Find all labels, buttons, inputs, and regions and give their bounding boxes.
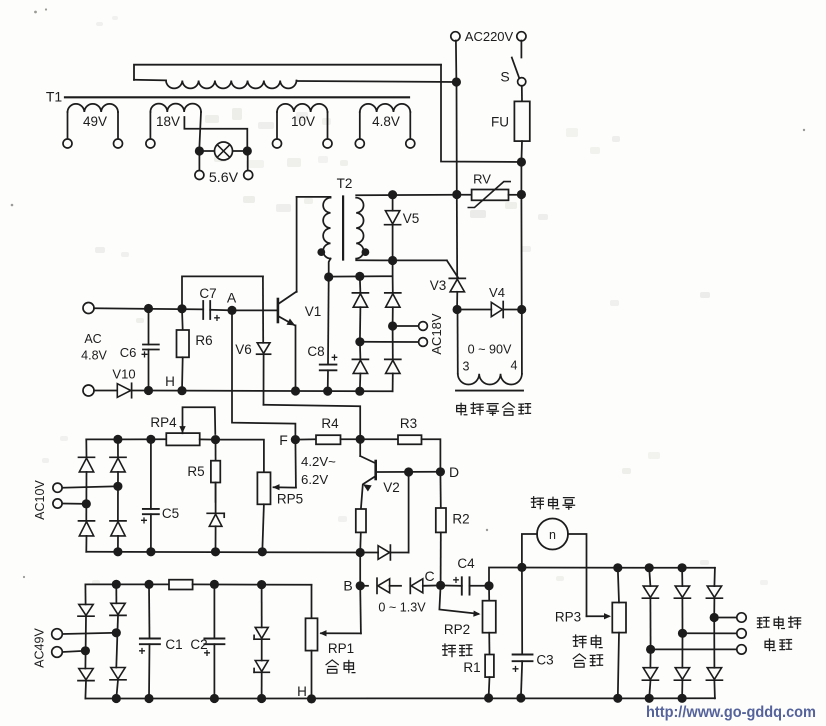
wire RP5 wiper to F bbox=[294, 440, 297, 488]
node bot C3 bbox=[516, 693, 525, 702]
label 6.2V bbox=[301, 472, 328, 487]
label R5 bbox=[187, 464, 204, 479]
label C6 bbox=[120, 345, 137, 360]
svg-text:T2: T2 bbox=[337, 176, 353, 191]
label R3 bbox=[400, 416, 417, 431]
wire V4 right bbox=[503, 309, 522, 311]
label F bbox=[279, 432, 288, 448]
svg-text:C: C bbox=[424, 568, 434, 584]
wire between VB1 VB2 bbox=[390, 585, 401, 587]
svg-text:T1: T1 bbox=[46, 89, 63, 105]
node 3ph top col2 bbox=[678, 563, 687, 572]
wire AC10V top rail bbox=[86, 438, 166, 440]
resistor RF (filter) bbox=[169, 580, 193, 590]
resistor RE (V2 emitter) bbox=[356, 509, 366, 532]
transformer T1 primary winding bbox=[134, 80, 296, 89]
fuse FU bbox=[514, 101, 529, 141]
terminal 5.6V left bbox=[195, 171, 204, 180]
resistor R4 bbox=[316, 435, 341, 444]
node H C6 bbox=[144, 386, 153, 395]
wire H rail upper bbox=[149, 390, 393, 393]
label C5 bbox=[162, 506, 179, 521]
svg-text:V5: V5 bbox=[403, 211, 420, 226]
wire RP2 to R1 bbox=[488, 633, 490, 655]
wire F to R4 bbox=[295, 438, 316, 440]
RP4 wiper bbox=[179, 407, 215, 434]
node RV right bbox=[517, 190, 526, 199]
diode V5 bbox=[385, 199, 401, 257]
terminal 10V left bbox=[273, 139, 282, 148]
label dianya bbox=[765, 639, 791, 651]
wire T2 primary bottom bbox=[329, 259, 331, 277]
node bridge1 top bbox=[355, 272, 364, 281]
diode VD (mid rail) bbox=[378, 545, 390, 560]
node mid RP5 bbox=[258, 547, 267, 556]
label fankui bbox=[443, 644, 472, 657]
RP1 wiper bbox=[320, 630, 361, 636]
wire lamp left terminal bbox=[198, 151, 200, 171]
node C5 top bbox=[146, 435, 155, 444]
wire primary-bar right end down bbox=[441, 65, 521, 162]
3ph diode bot2 bbox=[674, 633, 690, 698]
switch S arm bbox=[512, 58, 519, 79]
svg-text:AC220V: AC220V bbox=[465, 29, 514, 44]
wire to RP3 wiper bbox=[587, 613, 612, 619]
label pin 3 bbox=[463, 360, 470, 374]
bridge diode D1 (AC18V top-left) bbox=[352, 276, 368, 341]
node FU junction bbox=[517, 157, 526, 166]
svg-text:D: D bbox=[449, 464, 459, 480]
label RV bbox=[473, 172, 491, 187]
wire R1 bottom bbox=[488, 677, 491, 698]
svg-text:C8: C8 bbox=[307, 344, 324, 359]
node bot 3ph2 bbox=[678, 694, 687, 703]
polarity dot T2 secondary bbox=[362, 248, 370, 256]
label zhuansu bbox=[573, 635, 602, 648]
label dianci-liheqi bbox=[457, 403, 531, 415]
wire A down to F bbox=[232, 310, 295, 439]
node D bbox=[436, 467, 445, 476]
label 0~1.3V bbox=[378, 601, 426, 615]
label C8 plus bbox=[331, 353, 338, 365]
svg-text:0 ~ 90V: 0 ~ 90V bbox=[468, 343, 512, 357]
svg-text:R6: R6 bbox=[195, 333, 212, 348]
node AC49V t1 bbox=[112, 628, 121, 637]
svg-text:FU: FU bbox=[491, 115, 509, 130]
capacitor C7 bbox=[203, 301, 232, 319]
svg-text:C6: C6 bbox=[120, 345, 137, 360]
label RP1 bbox=[328, 641, 354, 656]
label cesuji bbox=[757, 616, 800, 628]
winding T1 4.8V bbox=[360, 104, 411, 139]
svg-text:C3: C3 bbox=[536, 653, 553, 668]
node C8 top bbox=[324, 272, 333, 281]
capacitor C1 bbox=[140, 584, 160, 698]
tachometer meter n bbox=[537, 519, 568, 550]
wire B up bbox=[359, 553, 361, 586]
label T2 bbox=[337, 176, 353, 191]
node bot 3ph1 bbox=[645, 694, 654, 703]
electromagnetic clutch coil bbox=[458, 374, 522, 385]
svg-text:4.8V: 4.8V bbox=[372, 114, 400, 129]
wire RF right bbox=[193, 583, 312, 585]
svg-text:4.2V~: 4.2V~ bbox=[301, 454, 336, 469]
wire R4 to node bbox=[341, 438, 361, 440]
terminal AC220V right bbox=[517, 32, 526, 41]
label S bbox=[500, 69, 509, 85]
terminal AC10V top bbox=[53, 483, 62, 492]
terminal 5.6V right bbox=[244, 171, 253, 180]
node F bbox=[291, 435, 300, 444]
label C5 plus bbox=[140, 514, 147, 528]
node AC10V t2 bbox=[82, 499, 91, 508]
label V3 bbox=[430, 278, 447, 293]
svg-text:0 ~ 1.3V: 0 ~ 1.3V bbox=[378, 601, 426, 615]
wire VB2 to C bbox=[423, 584, 441, 586]
terminal 10V right bbox=[323, 139, 332, 148]
node lamp right bbox=[243, 146, 252, 155]
polarity dot T2 primary bbox=[317, 248, 325, 256]
node H bridge1 bbox=[355, 387, 364, 396]
winding T1 10V bbox=[277, 104, 328, 139]
svg-text:10V: 10V bbox=[291, 114, 315, 129]
wire A to V1 base bbox=[232, 309, 278, 311]
label C2 bbox=[190, 637, 207, 652]
node V5 top bbox=[388, 190, 397, 199]
transistor V2 bbox=[360, 439, 376, 491]
label RP3 bbox=[555, 610, 581, 625]
wire base-junction down bbox=[408, 472, 410, 553]
wire bridge top rail bbox=[329, 275, 393, 277]
bridge diode D4 (AC18V bottom-right) bbox=[385, 326, 401, 391]
RP5 wiper bbox=[273, 484, 296, 490]
terminal AC4.8V top bbox=[83, 303, 94, 314]
svg-text:R2: R2 bbox=[452, 512, 469, 527]
wire FU to RV bbox=[520, 162, 522, 195]
resistor R5 bbox=[211, 440, 220, 502]
wire rail to RP1 bbox=[311, 585, 313, 619]
label C3 plus bbox=[512, 662, 519, 676]
label 0~90V bbox=[468, 343, 512, 357]
label RP2 bbox=[444, 622, 470, 637]
node C1 top bbox=[144, 580, 153, 589]
switch S contact bbox=[518, 78, 526, 86]
node mid C5 bbox=[146, 547, 155, 556]
node RV left bbox=[452, 190, 461, 199]
wire AC10V t2 bbox=[62, 503, 86, 505]
transformer T1 core bbox=[65, 96, 409, 98]
3ph diode top1 bbox=[642, 568, 658, 650]
terminal tacho 1 bbox=[737, 613, 746, 622]
svg-text:+: + bbox=[453, 575, 460, 587]
label C7 plus bbox=[214, 313, 221, 325]
node AC10V top bbox=[113, 435, 122, 444]
label C7 bbox=[199, 286, 216, 301]
node R5 top bbox=[211, 435, 220, 444]
label C1 bbox=[165, 637, 182, 652]
winding T1 49V bbox=[68, 104, 119, 139]
label RP4 bbox=[150, 415, 177, 430]
zener VZ2 (pair lower) bbox=[254, 639, 269, 698]
label R4 bbox=[321, 416, 339, 431]
potentiometer RP5 bbox=[257, 472, 270, 504]
label C1 plus bbox=[138, 644, 145, 658]
svg-text:4.8V: 4.8V bbox=[81, 349, 107, 363]
node mid B-branch bbox=[356, 548, 365, 557]
label H(bottom) bbox=[297, 684, 307, 699]
label V4 bbox=[489, 285, 505, 300]
label 4.8V(input) bbox=[81, 349, 107, 363]
terminal 49V right bbox=[114, 139, 123, 148]
wire V1 collector bbox=[296, 197, 298, 292]
label D bbox=[449, 464, 459, 480]
wire V4 left bbox=[457, 309, 491, 311]
transistor V1 bbox=[278, 292, 297, 326]
node primary junction bbox=[452, 77, 461, 86]
diode V10 bbox=[94, 383, 149, 397]
wire 18V right lead to lamp node bbox=[199, 112, 201, 147]
node V4 left bbox=[453, 305, 462, 314]
bridge AC10V right column bbox=[110, 439, 126, 551]
wire AC49V top rail bbox=[85, 583, 169, 585]
potentiometer RP2 bbox=[483, 586, 496, 633]
label A bbox=[227, 290, 237, 306]
capacitor C5 bbox=[143, 439, 159, 551]
label geiding bbox=[326, 660, 355, 673]
wire diode to base-junction bbox=[390, 552, 408, 554]
wire 18V tap to lamp right node bbox=[184, 117, 247, 147]
label V6 bbox=[235, 342, 252, 357]
terminal tacho 3 bbox=[737, 645, 746, 654]
label AC10V bbox=[33, 480, 47, 520]
wire T2 secondary top to RV-left bbox=[356, 194, 457, 197]
svg-text:RP1: RP1 bbox=[328, 641, 354, 656]
wire lamp right bbox=[233, 150, 248, 152]
capacitor C8 bbox=[320, 277, 337, 391]
winding T1 18V bbox=[150, 104, 201, 140]
svg-text:RP4: RP4 bbox=[150, 415, 177, 430]
wire meter right bbox=[568, 534, 587, 616]
wire V2 emitter bbox=[361, 485, 363, 510]
wire lamp left bbox=[199, 150, 214, 152]
wire RP4 right bbox=[200, 438, 216, 440]
wire primary to AC220V-left bbox=[297, 81, 457, 82]
label C8 bbox=[307, 344, 324, 359]
node C4 right bbox=[484, 581, 493, 590]
terminal AC4.8V bottom bbox=[83, 385, 94, 396]
svg-text:5.6V: 5.6V bbox=[209, 170, 239, 186]
wire AC220V-left vertical bbox=[456, 82, 458, 195]
node AC18V upper bbox=[388, 321, 397, 330]
wire AC18V terminal 1 bbox=[393, 325, 419, 327]
zener VZ1 (pair upper) bbox=[254, 585, 269, 640]
terminal 4.8V right bbox=[406, 139, 415, 148]
node C bbox=[436, 581, 445, 590]
terminal 18V left bbox=[146, 139, 155, 148]
wire RP5 bottom bbox=[262, 504, 264, 552]
terminal AC18V top bbox=[419, 322, 428, 331]
diode V4 bbox=[491, 302, 503, 318]
diode V6 bbox=[257, 276, 271, 404]
node bot R1 bbox=[484, 693, 493, 702]
bridge AC49V left column bbox=[78, 584, 94, 698]
3ph diode top3 bbox=[706, 568, 722, 618]
label C3 bbox=[536, 653, 553, 668]
node VZ top bbox=[257, 580, 266, 589]
potentiometer RP4 bbox=[166, 433, 199, 445]
wire AC18V terminal 2 bbox=[360, 341, 419, 343]
capacitor C6 bbox=[143, 309, 159, 391]
wire AC49V t2 bbox=[63, 651, 86, 652]
wire T2 primary top to V1 collector bbox=[297, 196, 331, 198]
wire R3 to D bbox=[422, 439, 441, 472]
terminal AC49V bottom bbox=[52, 647, 63, 658]
label 5.6V bbox=[209, 170, 239, 186]
wire RV-right to clutch bbox=[520, 195, 522, 310]
clutch core bar bbox=[456, 390, 523, 392]
node phase V bbox=[678, 629, 687, 638]
label FU bbox=[491, 115, 509, 130]
node H C8 bbox=[323, 387, 332, 396]
resistor R1 bbox=[485, 655, 494, 678]
svg-text:H: H bbox=[297, 684, 307, 699]
node meter left bbox=[517, 563, 526, 572]
resistor R2 bbox=[436, 472, 446, 586]
svg-text:RP2: RP2 bbox=[444, 622, 470, 637]
transformer T2 core bbox=[342, 197, 344, 260]
lamp 5.6V indicator bbox=[215, 142, 233, 160]
label R6 bbox=[195, 333, 212, 348]
wire S to FU bbox=[521, 86, 523, 102]
3ph diode top2 bbox=[674, 568, 690, 634]
wire phase W bbox=[651, 648, 737, 650]
svg-text:C5: C5 bbox=[162, 506, 179, 521]
wire node to R3 bbox=[360, 438, 398, 440]
diode VB2 bbox=[410, 578, 423, 593]
svg-text:V4: V4 bbox=[489, 285, 505, 300]
zener VZ (below R5) bbox=[207, 483, 224, 552]
svg-text:C7: C7 bbox=[199, 286, 216, 301]
svg-text:http://www.go-gddq.com: http://www.go-gddq.com bbox=[646, 704, 816, 721]
svg-text:4: 4 bbox=[511, 359, 518, 373]
svg-text:H: H bbox=[165, 374, 175, 389]
node C2 top bbox=[210, 580, 219, 589]
bridge diode D3 (AC18V bottom-left) bbox=[352, 342, 368, 391]
node bot VZ bbox=[257, 694, 266, 703]
node bot 49c2 bbox=[112, 694, 121, 703]
wire phase U bbox=[714, 617, 737, 619]
svg-text:C4: C4 bbox=[457, 556, 475, 571]
diode VB1 bbox=[360, 578, 389, 593]
wire T2 secondary bottom bbox=[356, 259, 447, 261]
node V5 bottom bbox=[388, 256, 397, 265]
wire AC4.8V top rail bbox=[94, 308, 203, 309]
node AC10V t1 bbox=[113, 482, 122, 491]
label V10 bbox=[112, 367, 135, 382]
svg-text:V1: V1 bbox=[305, 304, 322, 319]
wire V3 gate diagonal bbox=[447, 260, 458, 277]
label jiaozheng bbox=[573, 654, 602, 667]
label C2 plus bbox=[203, 646, 210, 660]
svg-text:n: n bbox=[549, 528, 556, 542]
svg-text:V10: V10 bbox=[112, 367, 135, 382]
label AC18V bbox=[429, 313, 444, 355]
wire RE to rail bbox=[359, 532, 362, 552]
svg-text:49V: 49V bbox=[83, 114, 107, 129]
label C4 plus bbox=[453, 575, 460, 587]
node bot C1 bbox=[144, 694, 153, 703]
svg-text:R4: R4 bbox=[321, 416, 339, 431]
wire V1 emitter bbox=[295, 325, 297, 391]
label C4 bbox=[457, 556, 475, 571]
svg-text:RV: RV bbox=[473, 172, 491, 187]
svg-text:+: + bbox=[140, 514, 147, 528]
svg-text:+: + bbox=[331, 353, 338, 365]
wire AC220V right stub bbox=[520, 41, 522, 58]
capacitor C3 bbox=[513, 567, 533, 698]
wire R5-node to RP5 top bbox=[216, 440, 264, 473]
wire V2 base to D bbox=[376, 471, 441, 473]
label V1 bbox=[305, 304, 322, 319]
terminal AC220V left bbox=[451, 32, 460, 41]
label AC bbox=[84, 332, 101, 346]
node RP3 bottom bbox=[613, 694, 622, 703]
node 3ph top col1 bbox=[645, 563, 654, 572]
svg-text:RP3: RP3 bbox=[555, 610, 581, 625]
terminal 4.8V left bbox=[355, 139, 364, 148]
wire bottom rail bbox=[85, 697, 715, 699]
wire RP3 bottom bbox=[618, 633, 619, 699]
clutch coil left lead bbox=[457, 310, 459, 374]
svg-text:C2: C2 bbox=[190, 637, 207, 652]
node phase W bbox=[646, 645, 655, 654]
label 10V bbox=[291, 114, 315, 129]
node H V1-emitter bbox=[291, 386, 300, 395]
wire AC49V t1 bbox=[63, 633, 117, 634]
svg-text:V3: V3 bbox=[430, 278, 447, 293]
node AC49V t2 bbox=[81, 646, 90, 655]
label T1 bbox=[46, 89, 63, 105]
wire V5-bottom to bridge bbox=[392, 261, 394, 277]
node V4 right bbox=[517, 305, 526, 314]
wire C to RP2 wiper bbox=[439, 585, 480, 616]
watermark go-gddq bbox=[646, 704, 816, 721]
label C6 plus bbox=[141, 348, 148, 362]
label B bbox=[343, 578, 352, 594]
wire RP1 wiper riser bbox=[359, 586, 362, 634]
wire C4 node up + meter rail bbox=[489, 568, 715, 586]
svg-text:B: B bbox=[343, 578, 352, 594]
node mid c2 bbox=[113, 547, 122, 556]
wire AC220V left down bbox=[455, 41, 458, 83]
transformer T2 primary winding bbox=[323, 198, 330, 259]
node 49 top col2 bbox=[112, 580, 121, 589]
bridge AC10V left column bbox=[79, 439, 95, 551]
3ph diode bot1 bbox=[642, 649, 658, 698]
terminal tacho 2 bbox=[737, 629, 746, 638]
label 4.2V~ bbox=[301, 454, 336, 469]
wire lamp right terminal bbox=[247, 151, 249, 171]
svg-text:F: F bbox=[279, 432, 288, 448]
svg-text:AC: AC bbox=[84, 332, 101, 346]
wire mid rail bbox=[86, 551, 378, 554]
terminal 49V left bbox=[63, 139, 72, 148]
label V5 bbox=[403, 211, 420, 226]
node V2 collector bbox=[356, 435, 365, 444]
bridge AC49V right column bbox=[110, 584, 126, 698]
svg-text:+: + bbox=[214, 313, 221, 325]
label 49V bbox=[83, 114, 107, 129]
